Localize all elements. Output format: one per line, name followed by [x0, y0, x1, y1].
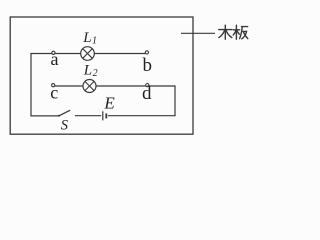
board outline (wooden board): [10, 17, 193, 134]
svg-text:2: 2: [93, 68, 98, 79]
terminal d: [146, 84, 149, 87]
label L2: [83, 62, 98, 79]
svg-text:S: S: [61, 117, 69, 133]
terminal a: [52, 51, 55, 54]
svg-text:L: L: [83, 62, 92, 78]
label S: [61, 117, 69, 133]
wire: middle row (lamp L2 branch): [53, 85, 175, 87]
wire: bottom bus left segment (to switch): [30, 115, 58, 117]
板 : left 木 radical: [233, 29, 239, 31]
svg-text:L: L: [82, 30, 91, 46]
terminal b: [145, 51, 148, 54]
switch S: [58, 110, 70, 117]
wire: bottom bus middle segment (switch to battery): [75, 115, 101, 117]
svg-text:1: 1: [92, 36, 97, 47]
wire: top row (lamp L1 branch): [30, 53, 147, 55]
svg-text:d: d: [142, 83, 152, 104]
wire: right vertical (d branch to bottom bus): [174, 85, 176, 116]
label E: [103, 94, 115, 113]
svg-text:c: c: [50, 83, 58, 103]
板 : right 反 part: [242, 26, 248, 28]
label b: [143, 55, 153, 76]
木: [219, 29, 232, 31]
wire: bottom bus right segment (battery to right vertical): [108, 115, 176, 117]
battery E: [103, 111, 107, 120]
svg-text:b: b: [143, 55, 153, 76]
leader line to board label: [181, 32, 215, 34]
terminal c: [52, 84, 55, 87]
label L1: [82, 30, 97, 47]
lamp L1: [81, 47, 95, 61]
label d: [142, 83, 152, 104]
lamp L2: [83, 80, 96, 93]
svg-text:a: a: [51, 49, 59, 69]
label a: [51, 49, 59, 69]
svg-text:E: E: [103, 94, 115, 113]
label 木板 (wooden board) drawn as strokes: [219, 25, 248, 39]
label c: [50, 83, 58, 103]
wire: left vertical bus: [30, 54, 32, 117]
